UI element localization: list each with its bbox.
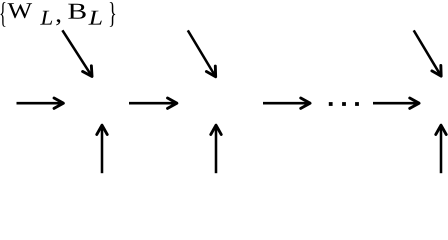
input arrow V1 — [97, 125, 107, 173]
label {W_L, B_L} — [0, 2, 115, 27]
input arrow V2 — [211, 125, 221, 173]
ellipsis dots — [329, 102, 359, 106]
wire arrow H3 — [263, 98, 310, 108]
wire arrow H2 — [129, 98, 177, 108]
wire arrow H4 — [373, 98, 419, 108]
weight arrow D3 — [414, 30, 441, 76]
weight arrow D1 — [62, 30, 92, 76]
wire arrow H1 — [17, 98, 64, 108]
weight arrow D2 — [188, 30, 216, 76]
input arrow V3 — [436, 125, 446, 173]
